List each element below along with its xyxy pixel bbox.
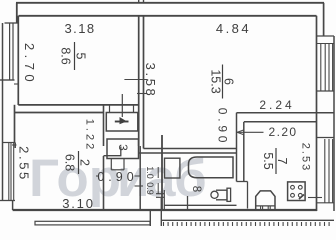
dim tick divider y93.5 <box>137 93 148 95</box>
wall: niche bottom (room6 lower-right) <box>237 112 335 114</box>
kitchen door leaf <box>247 182 249 209</box>
sill right y43.5 <box>317 43 335 45</box>
svg-text:15.3: 15.3 <box>209 69 223 93</box>
wall: room2 left lower stub <box>14 143 16 149</box>
dim 0.90 right dash <box>135 175 141 177</box>
wall: kitchen left inner <box>243 122 245 182</box>
window: room6 right glazing <box>320 44 322 92</box>
wall: kitchen top inner <box>244 121 317 123</box>
wall: bathroom bottom inner <box>164 204 236 206</box>
closet3 lower verticals <box>110 159 112 170</box>
svg-text:3: 3 <box>116 144 130 151</box>
svg-text:0.9: 0.9 <box>145 182 155 195</box>
svg-text:5: 5 <box>74 53 88 60</box>
svg-text:8: 8 <box>190 186 202 192</box>
fixture: toilet tank <box>227 188 231 201</box>
svg-text:3.58: 3.58 <box>143 63 158 99</box>
wall: room6 bottom-left double (bathroom top) <box>144 148 237 150</box>
wall: bathroom left inner lower <box>163 190 165 210</box>
fixture: toilet body <box>216 190 227 200</box>
wall: hallway top lower line <box>15 112 105 114</box>
wall: sill top-left y23 <box>5 22 20 24</box>
label room 5 <box>59 42 88 70</box>
svg-text:6: 6 <box>222 78 236 85</box>
svg-text:1.0: 1.0 <box>145 166 155 179</box>
svg-text:7: 7 <box>275 158 289 165</box>
dim tick divider y79.5 <box>124 79 147 81</box>
svg-text:3.18: 3.18 <box>65 21 96 36</box>
window: room2 left sill bottom <box>0 200 15 202</box>
wall: top interior line rooms 5+6 <box>19 15 317 17</box>
dim tick left wall y145 <box>12 144 17 146</box>
wall: divider continuation above top wall <box>138 0 140 3</box>
dim tick corridor wall y186 <box>135 185 144 187</box>
svg-text:2: 2 <box>78 159 92 166</box>
svg-text:2.53: 2.53 <box>300 143 312 172</box>
svg-text:0.90: 0.90 <box>97 170 137 184</box>
wall: hallway top (room5 bottom) upper line <box>18 104 138 106</box>
closet3 lower horizontal <box>111 169 124 171</box>
svg-text:6.8: 6.8 <box>63 154 77 171</box>
bathroom lower jamb <box>187 196 189 210</box>
wall: divider rooms5/6 left line <box>138 16 140 146</box>
entry door jambs below bottom wall <box>149 210 151 226</box>
wall: apartment bottom <box>13 209 317 211</box>
label closet 4 (rotated glyph drawn) <box>115 121 129 123</box>
label room 6 <box>209 65 236 99</box>
svg-text:3.10: 3.10 <box>62 196 95 211</box>
bottom-left neighbour rect <box>35 221 150 225</box>
wall: left bottom step vertical <box>12 201 14 211</box>
door jamb tick closet4 right <box>133 105 135 113</box>
wall: right exterior outer line <box>333 36 335 211</box>
window: kitchen right glazing <box>324 139 326 203</box>
wall: top exterior outer line <box>16 2 324 4</box>
window: room2 left sill top <box>3 142 15 144</box>
svg-text:2.55: 2.55 <box>17 146 32 182</box>
svg-text:2.70: 2.70 <box>22 43 37 86</box>
wall: divider rooms5/6 right line <box>143 16 145 149</box>
svg-text:0.90: 0.90 <box>216 108 230 147</box>
closet 4 leader line <box>121 94 123 117</box>
sill right y91 <box>317 90 335 92</box>
wall: room 2 left inner <box>14 105 16 143</box>
sill right y202.8 <box>317 202 335 204</box>
wall: bathroom left <box>161 135 163 210</box>
svg-text:1.22: 1.22 <box>84 119 96 152</box>
dim leader 2.20 arrow <box>237 131 264 133</box>
kitchen door jamb <box>237 181 248 183</box>
fixture: washbasin <box>165 158 180 178</box>
svg-text:2.24: 2.24 <box>259 98 294 112</box>
svg-text:4.84: 4.84 <box>216 21 251 36</box>
wall: top-left corner vertical <box>16 3 18 23</box>
bottom hatch ticks <box>164 222 330 226</box>
window: room 5 left glazing <box>9 24 11 81</box>
door jamb tick closet4 left <box>109 105 111 113</box>
dim 0.90 leader dash <box>96 175 99 177</box>
wall: left exterior outer line <box>2 23 4 201</box>
corridor small dims <box>145 166 158 179</box>
wall: room 5 left inner <box>17 16 19 105</box>
dim tick kitchen right wall y197.5 <box>308 197 322 199</box>
sill right y137.5 <box>317 137 335 139</box>
watermark Горжилоб <box>29 149 207 208</box>
dim tick left wall y84 <box>14 83 19 85</box>
label room 7 <box>261 148 289 174</box>
wall: room6 niche step outer (kitchen left outer) <box>236 113 238 182</box>
wall: room2 right <box>103 105 105 146</box>
bathroom door threshold <box>156 193 165 195</box>
svg-text:8.6: 8.6 <box>59 47 73 64</box>
label room 2 <box>63 151 92 174</box>
bottom hatched band line <box>161 219 334 221</box>
wall: corridor right <box>139 146 141 210</box>
window: room5 left sill bottom <box>0 79 15 81</box>
fixture: toilet bowl <box>211 191 218 198</box>
fixture: stove <box>288 182 306 201</box>
svg-text:5.5: 5.5 <box>261 152 275 169</box>
closet 3 <box>107 139 139 159</box>
fixture: kitchen sink <box>256 191 275 210</box>
wall: right inner face <box>316 16 318 211</box>
sill right y36 <box>317 35 335 37</box>
window: room 2 left glazing <box>8 143 10 201</box>
wall: top-right corner vertical outer <box>323 3 325 36</box>
door leaf room2 <box>104 147 121 156</box>
closet 4 <box>106 113 138 132</box>
fixture: bathtub <box>189 157 234 178</box>
svg-text:2.20: 2.20 <box>269 125 298 139</box>
